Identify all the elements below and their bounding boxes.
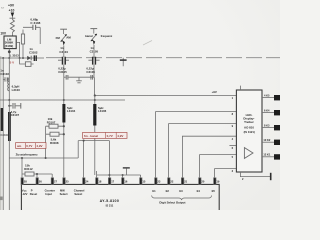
svg-text:5 V: 5 V	[10, 60, 15, 64]
op-amp triangle symbol inside driver	[244, 148, 253, 159]
svg-text:17: 17	[111, 180, 114, 184]
svg-text:FM: FM	[56, 36, 61, 40]
svg-text:8 K3: 8 K3	[264, 123, 270, 127]
svg-text:Reset: Reset	[30, 192, 37, 196]
pin boxes row on AY-5-8100	[21, 178, 220, 185]
node fm-kanal measurement box (red)	[83, 132, 127, 138]
svg-text:E5: E5	[212, 189, 216, 193]
svg-text:L 3103: L 3103	[10, 54, 19, 58]
wire stub driver pin 6	[229, 144, 236, 146]
pin labels K1-K5	[263, 93, 270, 156]
pin 17	[108, 178, 110, 185]
svg-text:kanal: kanal	[85, 34, 93, 38]
pin 25	[63, 178, 65, 185]
wire driver right pin K3	[262, 127, 274, 129]
value label 1n C3102	[29, 47, 38, 54]
svg-text:0,7V: 0,7V	[107, 134, 113, 138]
svg-text:E4: E4	[197, 189, 201, 193]
paper background	[0, 0, 280, 210]
svg-text:20: 20	[201, 180, 204, 184]
switch S1 FM/AM	[56, 29, 72, 45]
svg-text:fm - kanal: fm - kanal	[84, 134, 98, 138]
capacitor C3107 4.7u	[8, 103, 21, 117]
svg-text:AM: AM	[66, 36, 71, 40]
resistor R3102 small box right of bus	[20, 58, 34, 66]
connector blobs K5..K1	[274, 95, 280, 160]
wire L-net E2 to driver	[169, 124, 237, 178]
capacitor C3104 plates on rail	[58, 46, 69, 75]
scan edge shading left	[0, 56, 1, 210]
svg-text:4,9V: 4,9V	[36, 144, 42, 148]
wire driver right pin K1	[262, 156, 274, 158]
inductor filter bar at left edge	[1, 108, 3, 131]
svg-text:12 K1: 12 K1	[263, 153, 270, 157]
pin numbers at driver left edge	[232, 96, 234, 173]
wire y158 horizontal	[9, 157, 78, 159]
resistor R (zigzag) top left	[10, 20, 14, 33]
scan noise faint diagonal	[143, 41, 152, 46]
wire rail B down	[8, 100, 10, 210]
svg-text:16: 16	[124, 180, 127, 184]
svg-text:26: 26	[39, 180, 42, 184]
svg-text:Input: Input	[45, 192, 52, 196]
capacitor C3108 0.68u	[23, 17, 41, 30]
svg-text:IS 311: IS 311	[106, 204, 114, 208]
svg-text:(IS 3121): (IS 3121)	[244, 130, 255, 134]
svg-text:L3106: L3106	[98, 109, 107, 113]
pin 27	[51, 178, 53, 185]
svg-text:Channel: Channel	[74, 188, 85, 192]
wire L-net E5 to driver	[215, 169, 237, 178]
wire L-net E4 to driver	[200, 155, 237, 178]
wire L3106 down rail	[94, 126, 96, 176]
svg-text:21: 21	[184, 180, 187, 184]
pin 22	[168, 178, 170, 185]
pin 15	[140, 178, 142, 185]
svg-text:P: P	[31, 188, 33, 192]
svg-text:L3104: L3104	[67, 109, 76, 113]
IC U2 LED-Display-Treiber AO 810	[236, 86, 262, 172]
svg-text:(3189): (3189)	[5, 44, 13, 48]
node am measurement box (red)	[16, 143, 46, 149]
svg-text:4,9V: 4,9V	[117, 134, 123, 138]
svg-text:25: 25	[66, 180, 69, 184]
supply end bar	[270, 173, 272, 180]
svg-text:19: 19	[216, 180, 219, 184]
resistor R3101 vertical	[21, 30, 24, 59]
svg-text:C3109: C3109	[0, 133, 9, 137]
resistor R3112 15k	[21, 157, 52, 178]
svg-text:24: 24	[85, 180, 88, 184]
capacitor C to shield at x123	[120, 58, 127, 66]
switch S2 kanal/frequenz	[85, 29, 113, 45]
pin 24	[83, 178, 85, 185]
resistor R3107 10k	[46, 117, 65, 128]
value label 1n C3104	[59, 46, 68, 54]
svg-text:C 3108: C 3108	[30, 21, 40, 25]
node transistor dot below LM3089	[8, 49, 10, 58]
inductor L3106 filter bar	[93, 104, 106, 126]
wire driver right pin K2	[262, 141, 274, 143]
value label 1n C3105	[90, 46, 99, 54]
pin 23	[155, 178, 157, 185]
wire C3108 down to bus	[39, 27, 41, 44]
svg-text:Vcc: Vcc	[22, 188, 27, 192]
pin 18	[96, 178, 98, 185]
wire driver right pin K4	[262, 112, 274, 114]
wire +9V line to display driver	[95, 95, 237, 97]
capacitor C3105 plates on rail	[88, 45, 99, 75]
pin 20	[199, 178, 201, 185]
junction dots on bus	[2, 57, 24, 59]
svg-text:E3: E3	[179, 189, 183, 193]
scan noise bottom left mark	[0, 197, 3, 201]
inductor L3103 6.3uH vertical	[8, 58, 20, 100]
pin 19	[214, 178, 216, 185]
capacitor C bold plates on bus	[34, 55, 36, 61]
svg-text:AY-5-8100: AY-5-8100	[100, 199, 120, 203]
brace Digit Select Output	[152, 195, 212, 200]
pin 21	[181, 178, 183, 185]
svg-text:6 K4: 6 K4	[264, 108, 270, 112]
svg-text:frequenz: frequenz	[101, 34, 113, 38]
wire L3104 down to pin 25	[63, 123, 65, 179]
wire to LM3089	[11, 32, 13, 36]
svg-text:Digit Select Output: Digit Select Output	[159, 201, 185, 205]
svg-text:+9V: +9V	[212, 90, 217, 94]
ground	[76, 77, 82, 83]
svg-text:27: 27	[54, 180, 57, 184]
svg-text:28: 28	[24, 180, 27, 184]
svg-text:C3103: C3103	[0, 72, 9, 76]
wire drop to y158 wire	[77, 141, 79, 158]
svg-text:MW: MW	[60, 188, 65, 192]
svg-text:R3112: R3112	[24, 167, 33, 171]
svg-text:C3102: C3102	[29, 50, 38, 54]
wire L-net E1 to driver	[156, 112, 237, 178]
wire LM3089 output pin to right	[16, 42, 19, 58]
svg-text:22: 22	[170, 180, 173, 184]
shield dashed line	[0, 57, 44, 59]
wire below fm box	[78, 140, 109, 142]
capacitor C3103 1n to left rail	[0, 69, 9, 82]
svg-text:-12V: -12V	[22, 192, 28, 196]
svg-text:+9V: +9V	[8, 4, 15, 8]
wire driver bottom to supply bar	[240, 172, 270, 177]
wire rail S2 down	[94, 77, 96, 95]
svg-text:4 K5: 4 K5	[264, 93, 270, 97]
svg-text:Select: Select	[74, 192, 82, 196]
wire driver right pin K5	[262, 97, 274, 99]
inductor filter bar B	[8, 112, 11, 141]
pin 26	[36, 178, 38, 185]
svg-text:10V: 10V	[0, 32, 7, 36]
inductor L3104 filter bar	[62, 104, 75, 123]
svg-text:15: 15	[142, 180, 145, 184]
svg-text:L3103: L3103	[12, 88, 21, 92]
svg-text:Treiber: Treiber	[244, 120, 255, 124]
svg-text:E1: E1	[152, 189, 156, 193]
op-amp U1 LM3089K IC box	[4, 36, 16, 49]
svg-text:Counter: Counter	[45, 188, 55, 192]
svg-text:Select: Select	[60, 192, 68, 196]
wire R left drop	[45, 126, 47, 158]
capacitor T stub above y175 wire	[123, 168, 130, 175]
wire y175 horizontal with stubs	[97, 171, 141, 178]
svg-text:E2: E2	[166, 189, 170, 193]
svg-text:+10: +10	[9, 9, 15, 13]
capacitor pair C3105/C3106 0.22u with ground	[58, 67, 95, 83]
svg-text:C3107: C3107	[11, 113, 20, 117]
wire drop x109	[108, 141, 110, 175]
diode D1 on bus	[27, 56, 31, 61]
bus2 horizontal wire	[0, 99, 125, 101]
svg-text:0,7V: 0,7V	[26, 144, 32, 148]
svg-text:C3105: C3105	[58, 70, 67, 74]
svg-text:am: am	[17, 144, 22, 148]
pin 16	[122, 178, 124, 185]
node +9V supply arrow top left	[8, 4, 15, 18]
wire L-net E3 to driver	[182, 136, 236, 178]
wire drop pin24	[83, 141, 85, 178]
pin 28	[21, 178, 23, 185]
wire supply bar	[10, 17, 16, 20]
wire rail S1 down to bus2	[63, 77, 65, 104]
svg-text:C3106: C3106	[86, 70, 95, 74]
resistor R3108 5.6k	[46, 132, 65, 145]
wire left rail	[2, 58, 4, 210]
pin stub top	[239, 86, 241, 90]
svg-text:Zusatzfrequenz: Zusatzfrequenz	[16, 152, 39, 156]
svg-text:18: 18	[98, 180, 101, 184]
svg-text:10 K2: 10 K2	[263, 138, 270, 142]
svg-text:AO 810: AO 810	[244, 126, 254, 130]
svg-text:R3108: R3108	[50, 141, 59, 145]
svg-text:23: 23	[157, 180, 160, 184]
IC U3 AY-5-8100 big box	[21, 184, 219, 210]
